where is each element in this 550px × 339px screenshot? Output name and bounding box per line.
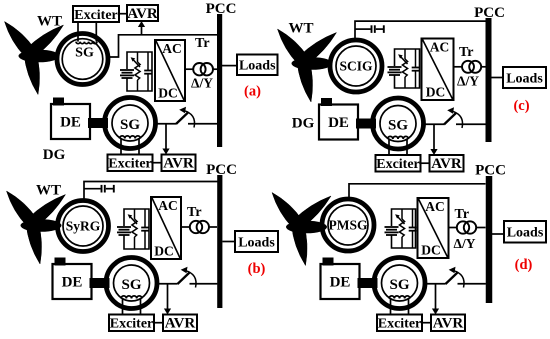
Loads box (d) <box>504 221 546 243</box>
svg-text:SG: SG <box>121 277 141 293</box>
shaft DE to SG (c) <box>356 119 376 129</box>
generator SyRG (b) <box>58 201 109 252</box>
filter capacitor right branch (c) <box>412 49 420 88</box>
PCC bus bar (d) <box>486 176 493 303</box>
wire converter to transformer (b) <box>181 226 190 228</box>
filter capacitor right branch (d) <box>409 209 417 248</box>
svg-text:AVR: AVR <box>165 316 196 332</box>
svg-text:(a): (a) <box>244 84 261 100</box>
wire switch to PCC bus (c) <box>456 123 486 125</box>
svg-text:DE: DE <box>60 115 81 131</box>
AVR box (diesel) (a) <box>162 155 196 172</box>
wire converter to transformer (d) <box>449 227 457 229</box>
svg-text:Exciter: Exciter <box>378 317 422 332</box>
generator SCIG (c) <box>330 40 382 92</box>
series capacitor on line (b) <box>84 185 114 193</box>
wires Exciter down to SG coil (a) <box>78 22 96 42</box>
breaker switch (c) <box>444 107 463 128</box>
AC/DC converter (b) <box>151 197 181 259</box>
svg-text:DE: DE <box>62 275 83 291</box>
svg-text:Exciter: Exciter <box>74 8 118 23</box>
wire transformer to PCC bus (d) <box>476 227 485 229</box>
wire transformer to PCC bus (a) <box>213 68 217 70</box>
wire switch to PCC bus (b) <box>190 283 218 285</box>
filter box outline (a) <box>127 52 152 91</box>
svg-text:AC: AC <box>162 41 182 56</box>
PCC bus bar (b) <box>217 175 222 308</box>
svg-text:DG: DG <box>43 147 66 163</box>
generator PMSG (d) <box>322 199 374 251</box>
AVR box (diesel) (d) <box>431 315 465 332</box>
svg-text:Exciter: Exciter <box>376 157 420 172</box>
diesel engine DE box (c) <box>319 98 358 140</box>
rotor coil inside diesel SG (a) <box>120 136 141 155</box>
shaft DE to SG (a) <box>88 118 108 128</box>
Exciter box (wind) (a) <box>73 6 119 23</box>
transformer Tr circles (d) <box>457 221 476 233</box>
generator SG (c) <box>373 98 424 149</box>
wire SG to switch (a) <box>154 123 176 125</box>
wire Exciter to AVR (d) <box>422 322 431 324</box>
svg-text:Tr: Tr <box>455 207 470 222</box>
svg-text:PMSG: PMSG <box>329 218 368 233</box>
svg-text:SyRG: SyRG <box>66 219 101 234</box>
filter box outline (b) <box>124 209 149 249</box>
AC/DC converter (c) <box>422 39 454 101</box>
wire PCC to Loads (d) <box>492 233 505 235</box>
svg-text:AVR: AVR <box>163 156 194 172</box>
wind turbine rotor and nacelle (d) <box>272 193 331 266</box>
diesel engine DE box (d) <box>321 258 360 300</box>
wire Exciter to AVR (a) <box>119 13 127 15</box>
sense wire with arrow into AVR (a) <box>162 124 169 155</box>
svg-text:AVR: AVR <box>127 6 158 22</box>
svg-text:DE: DE <box>328 115 349 131</box>
sense wire with arrow into AVR (b) <box>164 284 171 315</box>
svg-text:Δ/Y: Δ/Y <box>191 76 213 91</box>
svg-text:AC: AC <box>158 198 178 213</box>
shaft DE to SG (d) <box>358 278 378 288</box>
AC/DC converter (a) <box>155 40 185 101</box>
wire converter to transformer (c) <box>454 66 463 68</box>
wire transformer to PCC bus (c) <box>481 66 485 68</box>
generator SG (d) <box>374 258 425 309</box>
svg-text:SCIG: SCIG <box>339 59 373 74</box>
diesel engine DE box (b) <box>53 258 92 300</box>
Loads box (b) <box>235 231 278 252</box>
svg-text:DC: DC <box>426 85 446 100</box>
svg-text:(d): (d) <box>515 257 533 273</box>
wire SyRG up to PCC line (b) <box>84 182 218 201</box>
Loads box (c) <box>503 67 546 88</box>
wire SG to switch (d) <box>424 283 446 285</box>
svg-text:SG: SG <box>389 277 409 293</box>
filter capacitor stack (a) <box>120 70 134 78</box>
transformer Tr circles (b) <box>190 221 209 233</box>
svg-text:Tr: Tr <box>195 36 210 51</box>
svg-text:DC: DC <box>158 86 178 101</box>
wire switch to PCC bus (d) <box>458 283 486 285</box>
svg-text:Exciter: Exciter <box>110 317 154 332</box>
Exciter box (diesel) (c) <box>376 155 421 172</box>
PCC bus bar (a) <box>217 14 222 147</box>
sense wire with arrow up into AVR (a) <box>138 21 145 35</box>
svg-text:Tr: Tr <box>187 205 202 220</box>
transformer Tr circles (a) <box>193 63 213 75</box>
breaker switch (b) <box>178 267 197 288</box>
wire transformer to PCC bus (b) <box>209 226 217 228</box>
wire PCC to Loads (b) <box>222 241 235 243</box>
wire SG output up to PCC line (a) <box>108 35 218 57</box>
svg-text:Δ/Y: Δ/Y <box>454 236 476 251</box>
filter variable resistor (b) <box>128 209 138 249</box>
filter box outline (c) <box>395 49 420 88</box>
wire SG to switch (c) <box>422 123 444 125</box>
wire PCC to Loads (c) <box>491 77 503 79</box>
generator SG (b) <box>106 258 157 309</box>
stator coil inside wind SG (a) <box>76 42 97 44</box>
generator SG (a) <box>57 34 108 85</box>
svg-text:(c): (c) <box>513 98 529 114</box>
diesel engine DE box (a) <box>51 98 90 140</box>
svg-text:DC: DC <box>154 244 174 259</box>
filter capacitor stack (c) <box>388 67 402 75</box>
svg-text:Exciter: Exciter <box>108 157 152 172</box>
svg-text:AVR: AVR <box>431 156 462 172</box>
filter variable resistor (c) <box>398 49 408 88</box>
series capacitor on line (c) <box>355 25 384 33</box>
svg-text:SG: SG <box>120 117 140 133</box>
svg-text:WT: WT <box>288 21 313 37</box>
breaker switch (d) <box>446 267 465 288</box>
svg-text:DC: DC <box>421 243 441 258</box>
rotor coil inside diesel SG (c) <box>388 136 409 155</box>
filter capacitor stack (b) <box>117 227 131 235</box>
filter capacitor stack (d) <box>385 227 399 235</box>
filter variable resistor (a) <box>131 52 141 91</box>
wire PCC to Loads (a) <box>222 65 237 67</box>
AVR box (diesel) (c) <box>430 155 464 172</box>
svg-text:Δ/Y: Δ/Y <box>457 73 479 88</box>
wire converter to transformer (a) <box>185 68 193 70</box>
AVR box (wind) (a) <box>127 5 158 22</box>
shaft DE to SG (b) <box>90 278 110 288</box>
wind turbine rotor and nacelle (c) <box>278 29 337 102</box>
svg-text:WT: WT <box>36 183 61 199</box>
svg-text:DG: DG <box>292 116 315 132</box>
wire PMSG up to PCC line (d) <box>349 184 486 200</box>
svg-text:Loads: Loads <box>238 235 275 250</box>
svg-text:SG: SG <box>388 118 408 134</box>
svg-text:SG: SG <box>75 46 94 61</box>
svg-text:AVR: AVR <box>433 316 464 332</box>
svg-text:Tr: Tr <box>459 45 474 60</box>
wind turbine rotor and nacelle (b) <box>7 191 66 264</box>
Exciter box (diesel) (b) <box>109 315 154 332</box>
wire Exciter to AVR (a) <box>153 162 162 164</box>
svg-text:Loads: Loads <box>239 59 276 74</box>
wire SG to switch (b) <box>156 283 178 285</box>
filter box outline (d) <box>392 209 416 248</box>
rotor coil inside diesel SG (d) <box>389 296 410 315</box>
filter capacitor right branch (b) <box>141 209 149 249</box>
wire Exciter to AVR (c) <box>421 162 430 164</box>
svg-text:(b): (b) <box>248 261 266 277</box>
wind turbine rotor and nacelle (a) <box>5 22 64 95</box>
filter capacitor right branch (a) <box>144 52 152 91</box>
breaker switch (a) <box>176 107 195 128</box>
svg-text:DE: DE <box>330 275 351 291</box>
svg-text:AC: AC <box>430 40 450 55</box>
transformer Tr circles (c) <box>462 61 481 73</box>
rotor coil inside diesel SG (b) <box>121 296 142 315</box>
AC/DC converter (d) <box>418 198 449 258</box>
PCC bus bar (c) <box>486 18 492 142</box>
Exciter box (diesel) (a) <box>108 155 153 172</box>
svg-text:Loads: Loads <box>507 226 544 241</box>
filter variable resistor (d) <box>395 209 405 248</box>
wire Exciter to AVR (b) <box>154 322 163 324</box>
Loads box (a) <box>237 55 278 76</box>
sense wire with arrow into AVR (c) <box>430 124 437 155</box>
svg-text:Loads: Loads <box>506 71 543 86</box>
generator SG (a) <box>105 98 156 149</box>
svg-text:AC: AC <box>425 199 445 214</box>
sense wire with arrow into AVR (d) <box>432 284 439 315</box>
AVR box (diesel) (b) <box>163 315 197 332</box>
wire switch to PCC bus (a) <box>188 123 217 125</box>
wire SCIG up to PCC line (c) <box>355 21 486 40</box>
Exciter box (diesel) (d) <box>377 315 422 332</box>
